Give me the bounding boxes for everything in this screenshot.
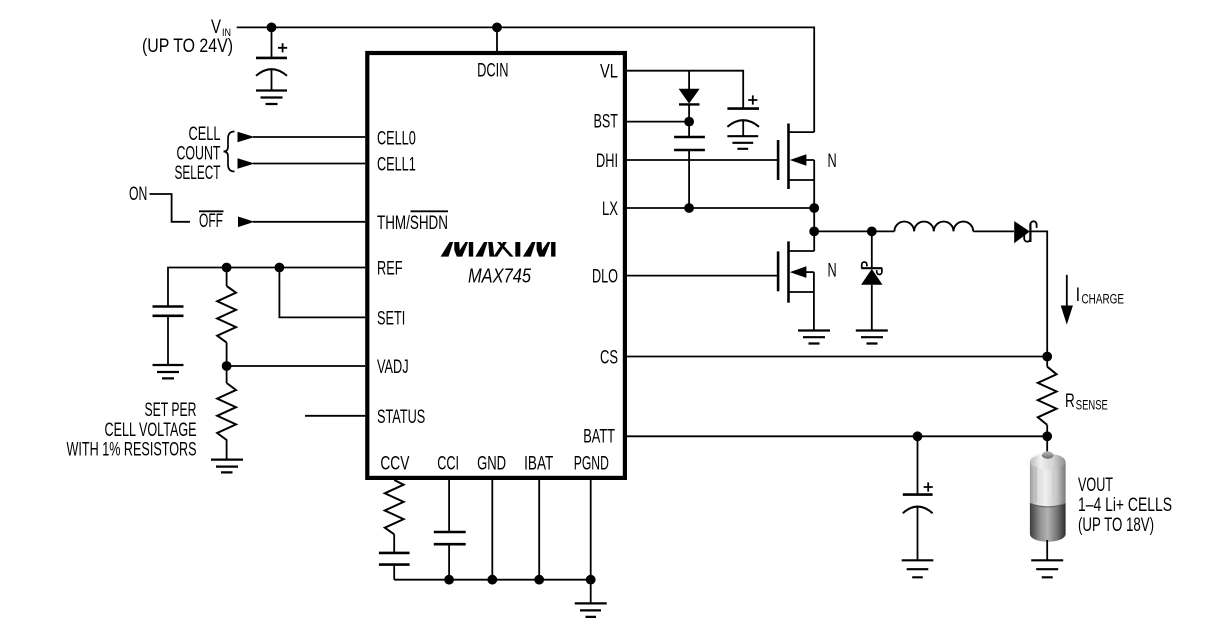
svg-text:LX: LX bbox=[602, 199, 618, 220]
svg-text:CELL0: CELL0 bbox=[377, 129, 416, 150]
node VIN-C1 junction bbox=[267, 23, 277, 33]
net VIN label bbox=[142, 17, 233, 57]
ground (D2) bbox=[856, 331, 888, 344]
capacitor C1 (VIN bulk, polarized) bbox=[256, 27, 287, 90]
wire D3 to CS node bbox=[1030, 231, 1047, 356]
svg-text:MAX745: MAX745 bbox=[468, 264, 531, 287]
svg-text:CELL1: CELL1 bbox=[377, 155, 416, 176]
svg-text:I: I bbox=[1076, 285, 1081, 306]
svg-text:CHARGE: CHARGE bbox=[1082, 292, 1125, 307]
wire BATT to battery bbox=[1046, 436, 1048, 453]
resistor R2 (REF divider lower) bbox=[217, 366, 236, 460]
MAXIM logo bbox=[441, 242, 556, 257]
ground (R2) bbox=[211, 460, 243, 473]
svg-text:VADJ: VADJ bbox=[377, 357, 409, 378]
svg-text:(UP TO 24V): (UP TO 24V) bbox=[142, 36, 233, 57]
text ICHARGE bbox=[1076, 285, 1124, 307]
svg-text:N: N bbox=[828, 151, 837, 172]
resistor R4 RSENSE bbox=[1038, 357, 1057, 437]
ground (PGND) bbox=[575, 603, 607, 617]
pin label THM/SHDN bbox=[377, 211, 448, 234]
text RSENSE bbox=[1065, 391, 1108, 413]
capacitor C4 (CCI) bbox=[434, 532, 466, 580]
svg-text:VL: VL bbox=[600, 62, 618, 83]
wire LX bbox=[627, 207, 814, 209]
node DCIN junction bbox=[492, 23, 502, 33]
wire compensation rail bbox=[394, 579, 591, 581]
resistor R3 (CCV) bbox=[385, 480, 404, 553]
svg-text:BST: BST bbox=[594, 112, 619, 133]
node CS junction bbox=[1042, 352, 1052, 362]
svg-text:BATT: BATT bbox=[583, 427, 615, 448]
diode D1 (BST boost) bbox=[679, 71, 700, 122]
ground (Q2 source) bbox=[798, 331, 830, 344]
diode D2 (Schottky catch) bbox=[861, 231, 882, 330]
svg-text:SETI: SETI bbox=[377, 308, 405, 329]
svg-text:DCIN: DCIN bbox=[477, 61, 508, 82]
svg-text:IBAT: IBAT bbox=[524, 454, 553, 475]
capacitor C5 (BST) bbox=[674, 122, 705, 208]
svg-text:CCI: CCI bbox=[437, 454, 459, 475]
wire VIN rail bbox=[237, 27, 815, 132]
wire switch node to inductor bbox=[814, 230, 894, 232]
text CELL COUNT SELECT bbox=[175, 124, 221, 184]
node REF-R1 junction bbox=[222, 263, 232, 273]
svg-text:CELL VOLTAGE: CELL VOLTAGE bbox=[105, 420, 197, 441]
svg-text:1–4 Li+ CELLS: 1–4 Li+ CELLS bbox=[1078, 495, 1172, 516]
wire CELL1 bbox=[253, 163, 365, 165]
battery BT1 (Li+ cells) bbox=[1030, 451, 1066, 542]
resistor R1 (REF divider upper) bbox=[217, 268, 236, 367]
current arrow ICHARGE bbox=[1061, 275, 1073, 325]
svg-text:R: R bbox=[1065, 391, 1075, 412]
svg-text:STATUS: STATUS bbox=[377, 407, 425, 428]
svg-text:SELECT: SELECT bbox=[175, 163, 221, 184]
node REF-SETI junction bbox=[275, 263, 285, 273]
wire BST bbox=[627, 121, 689, 123]
transistor Q1 (high-side NMOS) bbox=[778, 124, 814, 232]
svg-text:DHI: DHI bbox=[596, 151, 618, 172]
brace cell count select bbox=[224, 132, 235, 172]
svg-text:THM/SHDN: THM/SHDN bbox=[377, 213, 448, 234]
node IBAT-rail junction bbox=[534, 575, 544, 585]
wire SETI bbox=[279, 268, 365, 318]
svg-text:OFF: OFF bbox=[199, 211, 223, 232]
wire inductor to D3 bbox=[973, 230, 1014, 232]
wire VADJ bbox=[227, 365, 366, 367]
svg-text:CS: CS bbox=[600, 348, 618, 369]
node switch junction bbox=[809, 227, 819, 237]
node GND-rail junction bbox=[487, 575, 497, 585]
wire IBAT drop bbox=[538, 480, 540, 580]
svg-text:CCV: CCV bbox=[380, 454, 409, 475]
capacitor C6 (VL bypass, polarized) bbox=[727, 95, 759, 136]
wire GND drop bbox=[491, 480, 493, 580]
node CCI-rail junction bbox=[444, 575, 454, 585]
node BATT-C7 junction bbox=[913, 431, 923, 441]
wire DLO bbox=[627, 275, 778, 277]
node VADJ junction bbox=[222, 361, 232, 371]
capacitor C3 (CCV) bbox=[379, 553, 410, 580]
wire DHI bbox=[627, 159, 778, 161]
wire STATUS stub bbox=[305, 415, 365, 417]
capacitor C2 (REF bypass) bbox=[153, 307, 184, 366]
svg-text:SET PER: SET PER bbox=[145, 400, 197, 421]
wire CS bbox=[627, 356, 1047, 358]
svg-text:VOUT: VOUT bbox=[1078, 475, 1113, 496]
node PGND-rail junction bbox=[586, 575, 596, 585]
wire CELL0 bbox=[253, 136, 365, 138]
svg-text:N: N bbox=[828, 260, 837, 281]
ground (BT1) bbox=[1031, 560, 1063, 577]
transistor Q2 (low-side NMOS) bbox=[778, 231, 814, 330]
wire CCI drop bbox=[448, 480, 450, 532]
svg-text:CELL: CELL bbox=[189, 124, 221, 145]
wire VL bbox=[627, 71, 743, 109]
wire THM/SHDN bbox=[253, 221, 365, 223]
ground (C7) bbox=[902, 560, 934, 577]
node BATT-battery junction bbox=[1042, 431, 1052, 441]
svg-text:V: V bbox=[211, 17, 221, 38]
svg-text:ON: ON bbox=[129, 184, 147, 205]
wire battery to ground bbox=[1046, 540, 1048, 560]
node schottky junction bbox=[867, 227, 877, 237]
svg-text:COUNT: COUNT bbox=[177, 144, 221, 165]
svg-text:REF: REF bbox=[377, 259, 403, 280]
text VOUT 1-4 Li+ CELLS (UP TO 18V) bbox=[1078, 475, 1172, 536]
wire REF bbox=[168, 268, 365, 307]
wire BATT bbox=[627, 435, 1047, 437]
input arrow CELL0 bbox=[238, 132, 255, 143]
svg-text:(UP TO 18V): (UP TO 18V) bbox=[1078, 515, 1154, 536]
wire PGND drop bbox=[590, 480, 592, 603]
inductor L1 bbox=[894, 222, 973, 232]
svg-text:GND: GND bbox=[477, 454, 506, 475]
text SET PER CELL VOLTAGE WITH 1% RESISTORS bbox=[67, 400, 197, 461]
node LX-C5 junction bbox=[684, 203, 694, 213]
ground (C1) bbox=[256, 91, 287, 105]
node LX-FET junction bbox=[809, 203, 819, 213]
svg-text:PGND: PGND bbox=[574, 454, 609, 475]
diode D3 (Schottky rectifier) bbox=[1014, 221, 1036, 243]
input arrow THM/SHDN bbox=[238, 217, 255, 228]
svg-text:DLO: DLO bbox=[592, 267, 618, 288]
text OFF with overline bbox=[199, 211, 224, 232]
svg-text:SENSE: SENSE bbox=[1076, 397, 1108, 412]
ground (C2) bbox=[153, 365, 184, 378]
wire ON/OFF bbox=[150, 194, 191, 222]
capacitor C7 (output, polarized) bbox=[903, 436, 933, 560]
ground (C6) bbox=[727, 136, 758, 149]
wire DCIN drop bbox=[496, 27, 498, 51]
svg-text:WITH 1% RESISTORS: WITH 1% RESISTORS bbox=[67, 440, 197, 461]
op-amp U1 MAX745 IC body bbox=[367, 53, 625, 478]
input arrow CELL1 bbox=[238, 158, 255, 169]
node BST junction bbox=[684, 117, 694, 127]
